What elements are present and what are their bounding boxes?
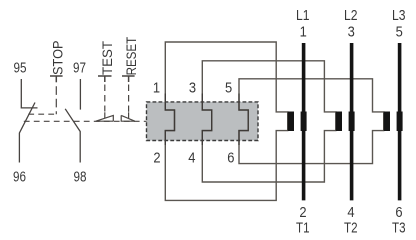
svg-text:L1: L1 (296, 8, 310, 24)
svg-text:95: 95 (14, 61, 27, 77)
svg-text:4: 4 (347, 205, 354, 221)
svg-text:T1: T1 (296, 220, 310, 236)
svg-text:TEST: TEST (99, 41, 115, 75)
svg-text:5: 5 (396, 24, 403, 40)
svg-text:98: 98 (74, 170, 87, 186)
svg-text:1: 1 (153, 80, 160, 96)
svg-text:4: 4 (188, 150, 195, 166)
svg-text:3: 3 (348, 24, 355, 40)
svg-text:T3: T3 (392, 220, 406, 236)
svg-text:L3: L3 (392, 8, 406, 24)
svg-text:T2: T2 (344, 220, 358, 236)
svg-text:L2: L2 (344, 8, 358, 24)
svg-text:97: 97 (73, 61, 86, 77)
svg-text:6: 6 (227, 150, 234, 166)
svg-text:6: 6 (395, 205, 402, 221)
svg-text:3: 3 (189, 80, 196, 96)
svg-text:2: 2 (153, 150, 160, 166)
svg-text:5: 5 (225, 80, 232, 96)
svg-text:2: 2 (299, 205, 306, 221)
svg-text:1: 1 (300, 24, 307, 40)
svg-text:RESET: RESET (123, 36, 139, 75)
svg-text:STOP: STOP (50, 41, 66, 76)
svg-text:96: 96 (13, 170, 26, 186)
